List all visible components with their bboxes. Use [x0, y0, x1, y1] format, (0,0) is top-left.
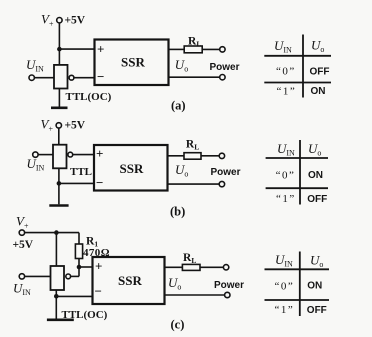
svg-text:OFF: OFF	[310, 66, 330, 77]
svg-text:“0”: “0”	[276, 170, 296, 182]
svg-text:OFF: OFF	[307, 194, 327, 205]
svg-text:“0”: “0”	[275, 281, 295, 293]
svg-text:ON: ON	[308, 170, 323, 181]
svg-text:TTL(OC): TTL(OC)	[62, 309, 108, 321]
svg-text:SSR: SSR	[118, 273, 142, 288]
svg-text:+: +	[95, 258, 102, 273]
svg-text:+: +	[97, 41, 104, 56]
svg-text:“1”: “1”	[276, 193, 296, 205]
svg-text:Power: Power	[210, 62, 240, 73]
svg-text:+5V: +5V	[65, 15, 86, 27]
svg-text:470Ω: 470Ω	[83, 247, 110, 259]
svg-text:+5V: +5V	[13, 239, 34, 251]
svg-text:−: −	[95, 283, 102, 298]
svg-text:“1”: “1”	[275, 304, 295, 316]
svg-text:Power: Power	[211, 167, 241, 178]
svg-text:“0”: “0”	[276, 65, 296, 77]
svg-text:TTL(OC): TTL(OC)	[66, 91, 112, 103]
svg-text:ON: ON	[311, 86, 326, 97]
svg-text:−: −	[96, 175, 103, 190]
svg-text:SSR: SSR	[121, 55, 145, 70]
svg-text:SSR: SSR	[120, 161, 144, 176]
svg-text:Power: Power	[214, 280, 244, 291]
svg-text:(b): (b)	[170, 205, 185, 219]
svg-text:TTL: TTL	[70, 166, 92, 178]
svg-text:ON: ON	[307, 281, 322, 292]
svg-text:−: −	[97, 69, 104, 84]
svg-text:“1”: “1”	[277, 86, 297, 98]
svg-text:OFF: OFF	[307, 305, 327, 316]
svg-text:(c): (c)	[171, 318, 185, 332]
svg-text:(a): (a)	[171, 99, 186, 113]
svg-text:+5V: +5V	[65, 120, 86, 132]
svg-text:+: +	[96, 146, 103, 161]
